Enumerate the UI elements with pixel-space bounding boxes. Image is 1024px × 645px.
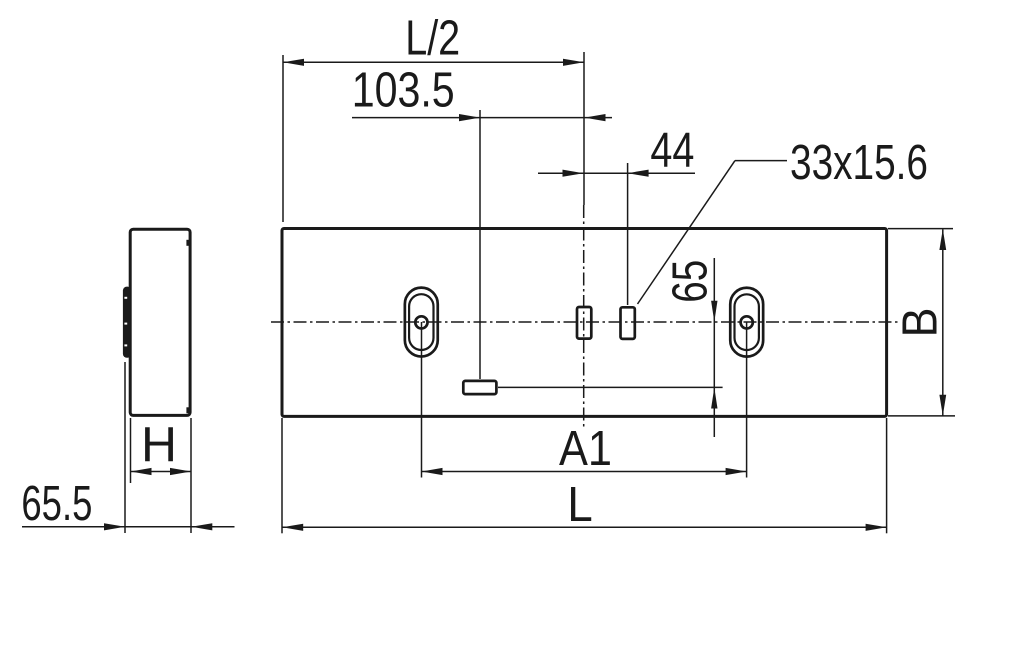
dimension 65.5 line xyxy=(22,526,235,528)
svg-text:65: 65 xyxy=(662,260,717,303)
dimension L extension line left xyxy=(281,418,283,533)
dimension H line xyxy=(131,471,192,473)
svg-text:65.5: 65.5 xyxy=(21,476,92,531)
left slot outer xyxy=(405,288,438,357)
svg-text:L/2: L/2 xyxy=(405,11,460,66)
dimension B extension line top xyxy=(888,228,953,230)
dimension L extension line right xyxy=(886,418,888,533)
dimension L line xyxy=(282,526,886,528)
dimension B line xyxy=(942,229,944,415)
middle right slot 33x15.6 xyxy=(621,307,635,339)
left slot inner xyxy=(409,294,433,350)
dimension L/2 extension line left xyxy=(282,55,284,222)
dimension L/2 line xyxy=(283,61,584,63)
svg-text:44: 44 xyxy=(650,122,694,177)
dimension A1 extension line right xyxy=(746,322,748,478)
vertical centerline xyxy=(583,205,585,427)
right slot circle xyxy=(741,316,753,328)
side view body outline xyxy=(130,229,190,415)
svg-text:A1: A1 xyxy=(559,421,612,476)
right slot outer xyxy=(730,288,763,357)
left slot circle xyxy=(415,316,427,328)
dimension 65 line xyxy=(713,258,715,437)
middle left slot 33x15.6 xyxy=(577,307,591,339)
dimension 103.5 extension line xyxy=(479,110,481,379)
svg-text:L: L xyxy=(567,477,593,532)
dimension 65 extension line xyxy=(498,386,723,388)
dimension 44 extension line xyxy=(627,163,629,305)
dimension H extension line left xyxy=(130,418,132,483)
right slot inner xyxy=(735,294,759,350)
side view edge tick bottom right xyxy=(186,407,189,413)
plate outline xyxy=(282,229,887,417)
horizontal centerline xyxy=(271,321,899,323)
dimension L/2 extension line right xyxy=(583,52,585,205)
side view emboss protrusion xyxy=(123,287,131,358)
dimension A1 extension line left xyxy=(421,322,423,478)
side view edge tick top right xyxy=(186,240,189,246)
dimension 103.5 line xyxy=(352,117,612,119)
label 33x15.6 leader xyxy=(638,161,736,304)
bottom slot xyxy=(463,381,496,394)
svg-text:33x15.6: 33x15.6 xyxy=(790,135,928,190)
svg-text:H: H xyxy=(141,417,177,472)
svg-text:103.5: 103.5 xyxy=(352,63,455,118)
dimension H extension line right xyxy=(190,418,192,533)
dimension B extension line bottom xyxy=(888,415,955,417)
dimension A1 line xyxy=(422,471,747,473)
dimension 65.5 extension line xyxy=(124,362,126,533)
svg-text:B: B xyxy=(893,308,948,338)
dimension 44 line xyxy=(538,172,695,174)
